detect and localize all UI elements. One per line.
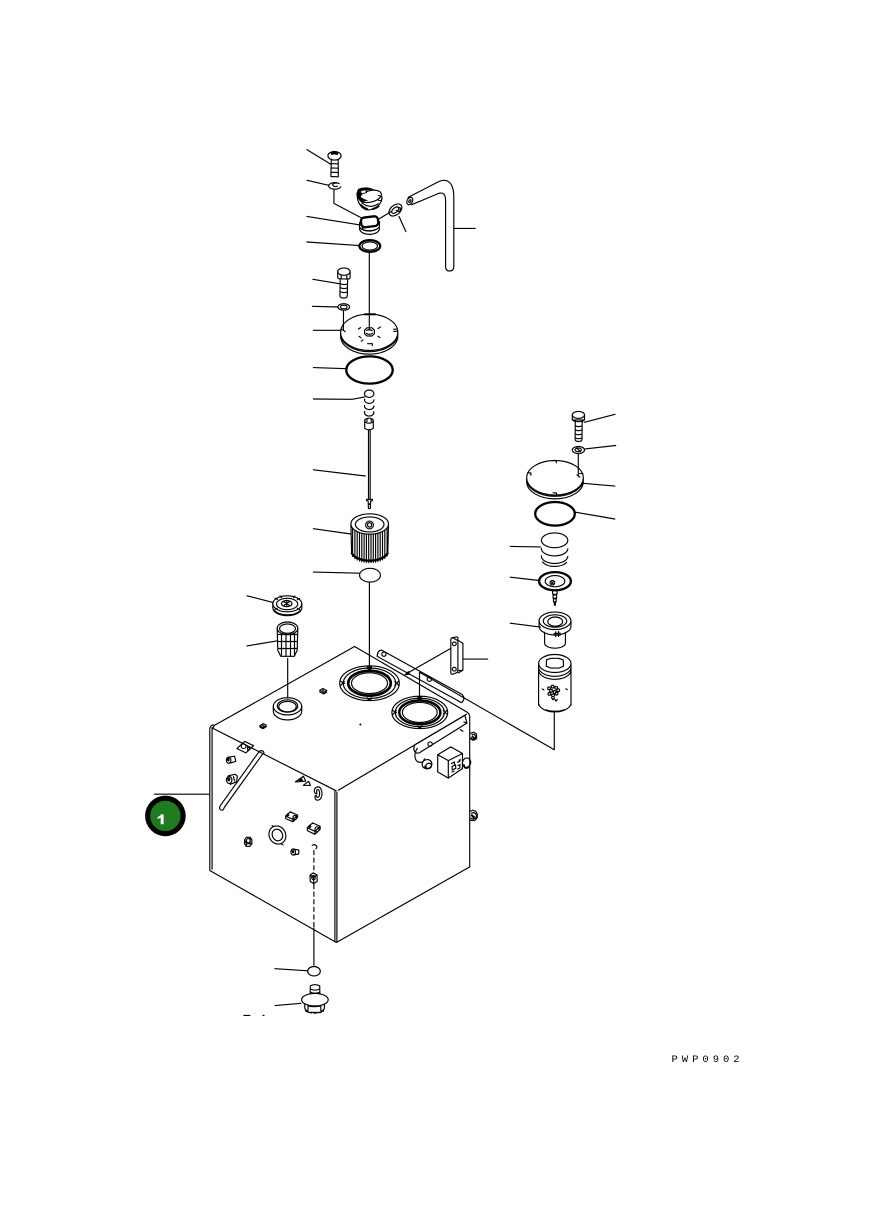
drain plug <box>302 985 329 1013</box>
handrail mount plate <box>237 741 254 753</box>
leader neck to chain link <box>378 212 391 220</box>
mounting rail (top edge) <box>377 650 464 703</box>
leader line to drain gasket <box>275 969 308 971</box>
drain dashed line <box>313 851 315 873</box>
handrail <box>220 751 264 811</box>
leader line to O-ring <box>313 368 346 369</box>
opening 2 (return filter) <box>392 696 448 728</box>
leader line to lock washer <box>307 180 328 185</box>
circular port flange <box>266 823 289 847</box>
sleeve <box>539 612 571 648</box>
leader line to bypass valve <box>510 577 539 580</box>
leader line to cover plate <box>313 329 341 331</box>
leader line to spring <box>313 397 364 399</box>
right O-ring <box>535 502 575 526</box>
leader ball to opening 1 with arrow <box>368 582 370 667</box>
strainer cap <box>273 596 302 616</box>
strainer <box>277 622 298 656</box>
leader line to bracket <box>463 658 487 660</box>
small fitting lower <box>291 849 299 855</box>
block fitting left <box>286 812 298 822</box>
leader line to gasket <box>307 242 360 246</box>
leader line to washer <box>312 305 338 308</box>
bypass spring <box>364 390 373 416</box>
filter element <box>351 514 389 563</box>
leader line to screw <box>307 150 331 165</box>
side bolt lower on right edge <box>470 810 477 820</box>
breather boss <box>273 698 301 720</box>
chain link <box>387 202 405 219</box>
callout circle 1 <box>145 796 186 837</box>
hook clip on front face <box>314 787 322 800</box>
side bolt upper on right edge <box>471 732 477 740</box>
leader line from callout to tank <box>154 793 209 795</box>
leader line to rod <box>313 470 365 476</box>
leader line to drain plug <box>275 1003 301 1005</box>
valve block on right face <box>438 747 463 778</box>
hex bolt (right cover) <box>572 411 584 441</box>
bracket leader with arrow to rail <box>408 648 452 673</box>
cover O-ring <box>346 356 392 383</box>
bypass rod <box>365 418 374 508</box>
filler cap <box>357 187 383 210</box>
leader line to ball <box>313 572 359 573</box>
top face small plate label <box>260 724 267 729</box>
port circle right of block <box>461 757 471 769</box>
drain passage nut <box>310 873 317 884</box>
front face fitting 1 <box>226 756 236 763</box>
return filter cartridge <box>539 655 571 713</box>
leader line to filter element <box>313 529 351 534</box>
line strainer to boss <box>287 659 289 699</box>
leader washer to filler neck <box>334 190 363 219</box>
leader from filter to opening 2 <box>420 672 555 750</box>
hex bolt (cover) <box>338 268 350 298</box>
filler neck <box>359 216 379 234</box>
opening 1 (filler) <box>340 666 400 701</box>
plain washer <box>338 304 350 311</box>
stray dash marks <box>244 1014 264 1016</box>
cap gasket <box>359 240 380 252</box>
leader line to strainer <box>247 641 278 646</box>
drain gasket <box>308 967 321 976</box>
tiny dot on top face <box>359 724 361 726</box>
leader chain link down-right <box>399 216 406 231</box>
top face small plate label 2 <box>320 689 327 695</box>
svg-text:PWP0902: PWP0902 <box>672 1054 744 1066</box>
breather tube <box>406 180 454 271</box>
line washer to right plate <box>577 454 580 477</box>
leader line to right bolt <box>584 414 615 422</box>
return spring <box>541 533 567 567</box>
bypass valve <box>539 572 571 605</box>
warning triangles <box>295 776 305 782</box>
leader line to hex bolt <box>313 279 340 283</box>
hook below rail <box>415 748 425 762</box>
leader line to tube <box>454 227 475 229</box>
port circle left of block <box>421 758 433 770</box>
leader line to right O-ring <box>575 512 615 519</box>
tank body <box>210 647 470 943</box>
side rail (right face) <box>414 715 467 753</box>
right cover plate <box>527 460 584 498</box>
leader line to neck <box>307 216 360 225</box>
screw (cap mounting) <box>328 152 341 177</box>
leader line to right cover plate <box>582 483 615 486</box>
hex nut front face <box>245 837 252 846</box>
bracket <box>451 637 463 674</box>
line washer to plate <box>342 311 346 332</box>
spring washer (right) <box>572 446 584 453</box>
line gasket to cover plate <box>368 252 370 313</box>
front face fitting 2 <box>227 774 238 784</box>
leader line to return spring <box>510 545 540 548</box>
ball <box>360 568 381 582</box>
block fitting right <box>307 823 320 834</box>
drain line solid <box>313 928 315 965</box>
leader line to spring washer <box>585 446 616 449</box>
tank cover plate <box>341 314 398 354</box>
lock washer <box>329 183 341 190</box>
leader line to strainer cap <box>247 596 273 603</box>
leader line to sleeve <box>510 623 540 627</box>
